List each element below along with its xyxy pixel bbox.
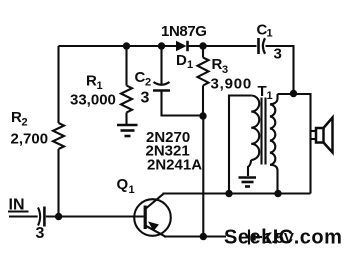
svg-text:1: 1 bbox=[187, 59, 193, 71]
svg-text:T: T bbox=[258, 83, 267, 100]
svg-text:R: R bbox=[11, 109, 22, 126]
svg-text:D: D bbox=[176, 52, 187, 69]
svg-text:R: R bbox=[212, 56, 223, 73]
svg-text:3: 3 bbox=[36, 225, 45, 242]
svg-text:C: C bbox=[135, 69, 146, 86]
svg-text:1: 1 bbox=[129, 184, 135, 196]
svg-text:IN: IN bbox=[9, 197, 25, 214]
svg-text:3,900: 3,900 bbox=[211, 76, 253, 93]
svg-text:3: 3 bbox=[274, 46, 282, 63]
svg-text:33,000: 33,000 bbox=[70, 92, 116, 109]
svg-text:3: 3 bbox=[222, 64, 228, 76]
svg-text:2N241A: 2N241A bbox=[147, 157, 202, 174]
svg-text:1: 1 bbox=[97, 80, 103, 92]
svg-text:3: 3 bbox=[141, 90, 150, 107]
svg-text:1.5V: 1.5V bbox=[263, 230, 294, 247]
svg-text:2,700: 2,700 bbox=[11, 131, 49, 148]
svg-text:1: 1 bbox=[267, 90, 273, 102]
svg-text:1N87G: 1N87G bbox=[161, 23, 207, 40]
svg-text:Q: Q bbox=[117, 176, 129, 193]
svg-text:2: 2 bbox=[22, 117, 28, 129]
svg-text:R: R bbox=[86, 73, 97, 90]
svg-text:2: 2 bbox=[145, 77, 151, 89]
svg-text:1: 1 bbox=[267, 28, 273, 40]
